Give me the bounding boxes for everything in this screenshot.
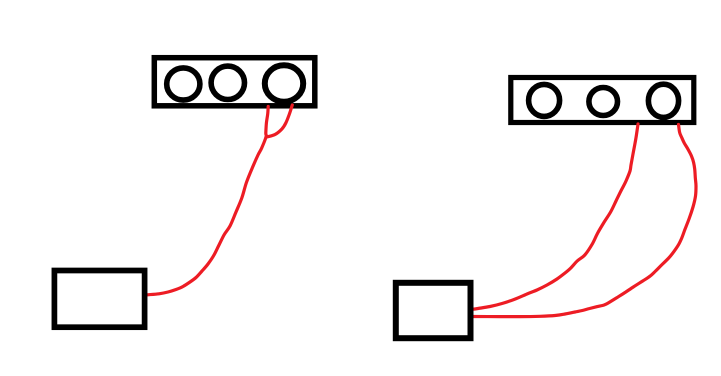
wire: inner red cord from strip 2 to device box 2 [472, 124, 638, 309]
outlet hole 3 of strip 2 [648, 84, 678, 117]
outlet hole 1 of strip 1 [167, 68, 200, 100]
power strip 2 (right outlet box) [511, 78, 694, 123]
outlet hole 3 of strip 1 [265, 65, 303, 101]
device box 1 (bottom-left rectangle) [54, 271, 144, 328]
wire: short right branch from outlet 3 to junction [267, 105, 293, 137]
outlet hole 1 of strip 2 [529, 84, 560, 116]
device box 2 (bottom-right rectangle) [396, 283, 471, 338]
wire: main red cord from strip 1 down to device box 1 [147, 107, 268, 295]
wire: outer red cord from strip 2 to device box 2 [472, 125, 696, 317]
outlet hole 2 of strip 2 [589, 88, 618, 116]
outlet hole 2 of strip 1 [211, 66, 244, 99]
power strip 1 (left outlet box) [154, 58, 314, 106]
